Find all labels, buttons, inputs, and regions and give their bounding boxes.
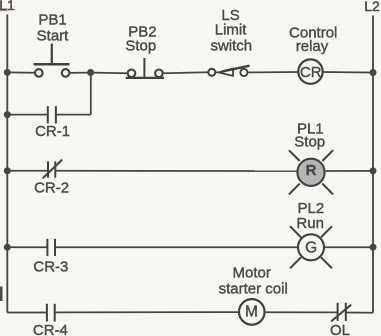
wire rung3 L1 to CR-2 bbox=[7, 170, 48, 172]
junction dot rung1 on L2 bbox=[370, 69, 377, 76]
junction dot rung4 on L2 bbox=[370, 244, 377, 251]
junction dot branch on L1 bbox=[4, 111, 11, 118]
svg-text:Stop: Stop bbox=[125, 37, 156, 54]
wire PB2 to LS bbox=[163, 72, 208, 73]
wire left rail L1 bbox=[6, 15, 8, 313]
svg-text:L1: L1 bbox=[0, 0, 15, 13]
contact CR-3 (NO) bbox=[47, 239, 55, 256]
svg-text:Start: Start bbox=[37, 28, 70, 45]
wire right rail L2 bbox=[372, 16, 374, 313]
svg-text:PB1: PB1 bbox=[38, 12, 66, 29]
wire rung5 L1 to CR-4 bbox=[7, 312, 47, 314]
svg-text:OL: OL bbox=[330, 322, 350, 336]
wire rung4 L1 to CR-3 bbox=[7, 246, 47, 248]
node A junction dot after PB1 bbox=[87, 69, 94, 76]
contact CR-2 (NC) bbox=[43, 160, 63, 179]
wire LS to CR coil bbox=[248, 71, 298, 73]
wire CR-4 to M coil bbox=[55, 311, 239, 313]
limit switch LS (NC) bbox=[208, 66, 249, 76]
pushbutton PB1 (NO start) bbox=[34, 44, 70, 77]
scan artifact tan patch top-left bbox=[0, 8, 8, 11]
svg-text:M: M bbox=[245, 304, 258, 321]
junction dot rung3 on L1 bbox=[4, 167, 11, 174]
contact CR-1 (NO) bbox=[48, 106, 56, 123]
svg-text:switch: switch bbox=[210, 37, 252, 54]
wire branch riser up to node A bbox=[90, 73, 92, 115]
wire node A to PB2 bbox=[94, 72, 128, 75]
wire M coil to OL bbox=[266, 311, 338, 313]
wire branch L1 to CR-1 bbox=[7, 114, 48, 116]
svg-text:R: R bbox=[306, 162, 317, 179]
junction dot rung4 on L1 bbox=[4, 244, 11, 251]
scan artifact dark streak left edge bbox=[0, 287, 3, 302]
junction dot rung3 on L2 bbox=[370, 167, 377, 174]
wire CR-3 to PL2 bbox=[55, 246, 298, 248]
svg-text:starter coil: starter coil bbox=[219, 281, 288, 298]
svg-text:Limit: Limit bbox=[215, 22, 248, 39]
svg-text:CR: CR bbox=[300, 64, 322, 81]
svg-text:Motor: Motor bbox=[233, 265, 271, 282]
relay coil CR bbox=[298, 59, 322, 83]
pilot light PL2 (green) bbox=[290, 226, 332, 268]
wire rung1 L1 to PB1 bbox=[7, 71, 34, 73]
pilot light PL1 (red, on) bbox=[289, 150, 333, 194]
motor starter coil M bbox=[239, 299, 265, 325]
svg-text:L2: L2 bbox=[364, 0, 380, 14]
svg-text:CR-3: CR-3 bbox=[33, 259, 68, 276]
contact CR-4 (NO) bbox=[47, 304, 55, 322]
svg-text:relay: relay bbox=[296, 38, 329, 55]
svg-text:G: G bbox=[305, 240, 317, 257]
svg-text:Stop: Stop bbox=[294, 133, 325, 150]
wire PL2 to L2 bbox=[324, 246, 370, 248]
overload contact OL (NC) bbox=[331, 303, 351, 322]
wire PB1 to node A bbox=[70, 72, 88, 74]
junction dot rung1 on L1 bbox=[4, 69, 11, 76]
wire PL1 to L2 bbox=[326, 170, 370, 172]
wire OL to L2 bbox=[346, 312, 373, 314]
svg-text:CR-1: CR-1 bbox=[35, 123, 70, 140]
svg-text:Run: Run bbox=[296, 215, 324, 232]
wire CR-2 to PL1 bbox=[55, 170, 297, 172]
wire CR-1 to riser bbox=[56, 114, 91, 116]
svg-text:CR-4: CR-4 bbox=[33, 322, 68, 336]
pushbutton PB2 (NC stop) bbox=[126, 58, 164, 78]
wire CR coil to L2 bbox=[323, 71, 370, 74]
svg-text:CR-2: CR-2 bbox=[34, 179, 69, 196]
